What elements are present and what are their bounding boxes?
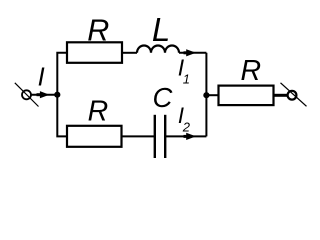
wire node B to R3 — [206, 94, 218, 96]
resistor R3 (output) — [219, 86, 274, 106]
terminal T2 (right output, circle with slash) — [281, 83, 307, 107]
resistor R2 (bottom branch) — [67, 126, 122, 147]
current arrow I1 — [184, 49, 197, 56]
svg-text:L: L — [152, 11, 170, 48]
current arrow I (input) — [37, 91, 50, 98]
current arrow I2 — [184, 133, 197, 140]
svg-text:R: R — [87, 13, 109, 47]
wire input from T1 to node A — [31, 94, 57, 96]
resistor R1 (top branch) — [67, 42, 122, 63]
svg-text:I: I — [38, 64, 45, 92]
svg-text:C: C — [152, 82, 172, 113]
wire L to node B (top right corner) — [179, 52, 206, 54]
wire C to bottom right corner — [165, 135, 206, 137]
svg-text:R: R — [88, 95, 109, 127]
node B (junction dot on right bus) — [203, 92, 209, 98]
terminal T1 (left input, circle with slash) — [15, 83, 39, 107]
label I1 — [178, 55, 190, 87]
inductor L — [137, 46, 179, 53]
svg-text:2: 2 — [182, 119, 191, 134]
svg-text:1: 1 — [183, 72, 190, 87]
wire right bus (vertical) — [205, 53, 207, 137]
wire left bus (vertical with stubs to both branches) — [57, 53, 67, 137]
wire R1 to L — [122, 52, 137, 54]
node A (junction dot on left bus) — [54, 92, 60, 98]
wire R2 to C — [122, 135, 155, 137]
capacitor C — [155, 115, 165, 158]
svg-text:R: R — [241, 55, 262, 87]
label I2 — [178, 103, 191, 134]
wire R3 to terminal T2 — [274, 94, 288, 97]
